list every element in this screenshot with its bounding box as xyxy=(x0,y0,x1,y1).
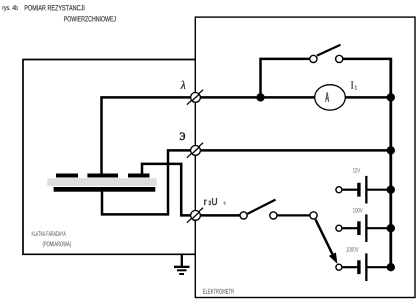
wire: right top electrode segment up, right, down to terminal r3U, to switch xyxy=(142,164,244,216)
label ELEKTROMETR xyxy=(203,289,234,294)
junction dot bus / battery 100V xyxy=(387,224,395,232)
title text POWIERZCHNIOWEJ xyxy=(64,16,116,21)
label E (Cyrillic) xyxy=(180,133,185,140)
terminal E (electrode) xyxy=(187,143,203,158)
wire: switch branch from junction up to switch S1 left contact xyxy=(261,59,310,98)
electrode segment 1 (top left dash) xyxy=(56,174,78,178)
title text POMIAR REZYSTANCJI xyxy=(25,5,85,10)
label lambda xyxy=(181,81,186,89)
wire: middle top electrode segment up and right to terminal lambda, across to bus xyxy=(102,97,391,175)
battery B1 10V xyxy=(336,176,391,204)
wire: bottom electrode down, right, up to terminal E, across to bus xyxy=(102,150,391,214)
wire: contact B to selector pivot C xyxy=(273,214,313,216)
switch S2 contact B xyxy=(270,212,277,219)
junction dot bus / ammeter wire xyxy=(387,93,395,101)
electrode segment 3 (top right dash) xyxy=(128,174,150,178)
selector wiper arrow pointing to 1000V battery xyxy=(316,220,338,264)
sample slab (gray) xyxy=(47,178,156,186)
title text rys. 4b xyxy=(3,5,18,11)
label 10V xyxy=(353,168,360,173)
electrometer enclosure box xyxy=(195,17,415,297)
junction dot bus / E wire xyxy=(387,146,395,154)
switch S2 contact A with open lever xyxy=(240,200,276,219)
electrode segment 2 (top middle dash) xyxy=(87,174,118,178)
junction dot switch branch / ammeter wire xyxy=(256,93,264,101)
ammeter A1 xyxy=(315,85,346,110)
wire: switch S1 right contact to bus top corner xyxy=(343,58,391,61)
faraday cage box xyxy=(23,60,195,255)
bottom electrode plate xyxy=(54,187,156,192)
terminal r3U (supply) xyxy=(187,208,203,223)
label I1 xyxy=(351,81,358,90)
battery B2 100V xyxy=(336,214,391,242)
selector pivot contact C xyxy=(310,212,317,219)
junction dot bus / battery 10V xyxy=(387,186,395,194)
battery B3 1000V xyxy=(336,253,391,281)
label r3U c xyxy=(204,198,226,205)
switch S1 (top branch, open) xyxy=(310,45,343,63)
ground xyxy=(174,254,190,275)
wire: supply bus vertical xyxy=(389,58,392,268)
label KLATKA FARADAYA xyxy=(32,231,66,236)
label (POMIAROWA) xyxy=(43,241,71,247)
label 1000V xyxy=(346,247,358,252)
terminal lambda (input) xyxy=(187,90,203,105)
label 100V xyxy=(353,208,363,213)
junction dot bus / battery 1000V xyxy=(387,263,395,271)
